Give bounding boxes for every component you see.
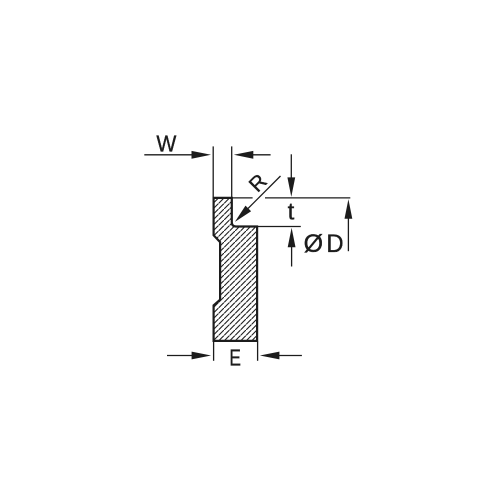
diameter D dimension arrow (pointing up): [345, 199, 353, 251]
W dimension line right with arrow: [234, 151, 271, 159]
E dimension line left with arrow: [167, 352, 211, 360]
wheel cross-section body (hatched profile): [214, 198, 258, 341]
t dimension lower arrow (pointing up): [288, 228, 296, 267]
W dimension line left with arrow: [144, 151, 211, 159]
t dimension upper arrow (pointing down): [287, 154, 295, 197]
R leader line with arrow: [235, 176, 281, 222]
extension line E right: [257, 342, 259, 361]
extension line E left: [213, 342, 215, 361]
recess depth reference line (ledge extension): [257, 226, 301, 228]
extension line W right: [231, 146, 233, 197]
svg-text:R: R: [245, 170, 272, 197]
extension line W left: [212, 146, 214, 197]
svg-text:W: W: [156, 130, 176, 156]
svg-text:t: t: [288, 199, 295, 226]
E dimension line right with arrow: [260, 352, 302, 360]
svg-text:Ø: Ø: [304, 230, 323, 258]
top reference line (OD line, broken at R leader): [232, 197, 350, 199]
svg-text:E: E: [229, 345, 241, 371]
svg-text:D: D: [326, 230, 343, 258]
